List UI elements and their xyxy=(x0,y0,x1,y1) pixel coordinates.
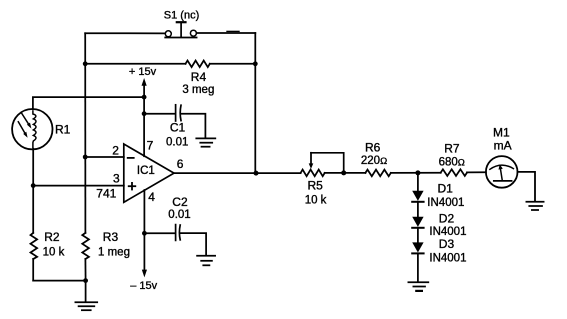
resistor R6 xyxy=(365,170,390,177)
wire R7 to meter xyxy=(467,171,486,173)
wire D2 to D3 xyxy=(417,228,419,243)
svg-text:4: 4 xyxy=(148,190,155,204)
svg-text:– 15v: – 15v xyxy=(130,280,157,292)
minus input sign xyxy=(128,157,134,159)
node junction diodes R7 xyxy=(415,170,420,175)
svg-text:R7: R7 xyxy=(444,142,460,156)
label R6 value xyxy=(361,140,387,167)
switch S1 (nc) pushbutton xyxy=(165,22,196,37)
label R3 value xyxy=(98,230,130,258)
svg-text:IN4001: IN4001 xyxy=(429,253,466,265)
wire top rail right (switch to right vertical) xyxy=(197,32,256,34)
wire R5 to R6 xyxy=(325,172,366,174)
diode D2 xyxy=(412,217,423,228)
svg-text:IN4001: IN4001 xyxy=(427,197,464,209)
svg-text:R1: R1 xyxy=(55,123,71,137)
wire R1 top to +15v node xyxy=(33,97,144,109)
wire D1 to D2 xyxy=(417,202,419,217)
svg-text:M1: M1 xyxy=(493,125,510,139)
resistor R2 xyxy=(31,233,38,259)
svg-text:+ 15v: + 15v xyxy=(129,66,157,78)
svg-text:7: 7 xyxy=(147,139,154,153)
svg-text:R6: R6 xyxy=(365,140,381,154)
svg-text:R4: R4 xyxy=(191,70,207,84)
label R2 value xyxy=(43,230,65,258)
svg-text:220Ω: 220Ω xyxy=(361,155,387,167)
svg-text:C1: C1 xyxy=(170,121,186,135)
wire left vertical (inverting input / R3 branch) xyxy=(84,33,86,233)
wire overlap artifact on top rail xyxy=(227,30,239,32)
label D3 value xyxy=(429,237,466,265)
wire pin 3 input xyxy=(33,185,124,187)
label M1 mA xyxy=(493,125,512,152)
ground for diodes xyxy=(408,282,428,291)
wire R1 bottom vertical (non-inverting branch) xyxy=(32,149,34,233)
svg-text:2: 2 xyxy=(112,144,119,158)
ground for C2 xyxy=(197,256,215,266)
potentiometer R5 xyxy=(301,153,344,176)
ground for C1 xyxy=(196,138,215,146)
node junction C1 tap xyxy=(142,111,147,116)
wire meter to ground xyxy=(518,172,535,201)
capacitor C2 xyxy=(144,225,206,256)
svg-text:6: 6 xyxy=(177,157,184,171)
node junction pin3 R1 R2 xyxy=(31,183,36,188)
resistor R3 xyxy=(82,233,89,259)
wire R3 bottom xyxy=(84,259,86,281)
svg-text:C2: C2 xyxy=(172,195,188,209)
node junction at left of R4 row xyxy=(83,61,88,66)
svg-text:741: 741 xyxy=(96,187,116,201)
wire diode chain top xyxy=(417,173,419,191)
capacitor C1 xyxy=(144,105,205,138)
wire pin7 supply stub xyxy=(143,97,145,156)
svg-text:10 k: 10 k xyxy=(43,246,65,258)
wire pin4 supply stub xyxy=(143,190,145,270)
label R4 value xyxy=(182,70,214,96)
wire right vertical (feedback from output) xyxy=(254,33,256,173)
svg-text:D1: D1 xyxy=(438,181,454,195)
label D1 value xyxy=(427,181,464,209)
diode D3 xyxy=(412,242,423,253)
node junction bottom ground xyxy=(83,278,88,283)
svg-text:IC1: IC1 xyxy=(137,165,155,177)
node junction pin2 feedback xyxy=(83,155,88,160)
wire bottom rail to ground xyxy=(33,280,85,282)
wire output pin 6 xyxy=(174,172,301,174)
svg-text:0.01: 0.01 xyxy=(166,136,188,148)
node junction at right of R4 row xyxy=(253,61,258,66)
label R7 value xyxy=(439,142,465,169)
ground bottom left xyxy=(75,281,97,311)
node junction +15v rail with R1 wire xyxy=(142,95,147,100)
svg-text:3: 3 xyxy=(113,171,120,185)
wire D3 to ground xyxy=(417,253,419,282)
svg-text:0.01: 0.01 xyxy=(168,209,190,221)
svg-text:3 meg: 3 meg xyxy=(182,84,214,96)
label C1 value xyxy=(166,121,188,149)
svg-text:R5: R5 xyxy=(308,179,324,193)
node junction C2 tap xyxy=(142,231,147,236)
wire second rail (R4 row) xyxy=(85,63,255,65)
wire R2 bottom xyxy=(32,259,34,281)
svg-text:680Ω: 680Ω xyxy=(439,156,465,168)
label C2 value xyxy=(168,195,190,221)
ground for meter xyxy=(526,202,543,210)
svg-text:D3: D3 xyxy=(439,237,455,251)
wire pin 2 input xyxy=(85,156,124,158)
meter M1 xyxy=(486,156,518,188)
label D2 value xyxy=(429,211,466,238)
photoresistor R1 xyxy=(12,109,52,149)
svg-text:1 meg: 1 meg xyxy=(98,246,130,258)
diode D1 xyxy=(412,191,423,202)
svg-text:D2: D2 xyxy=(439,211,455,225)
resistor R4 xyxy=(186,61,210,68)
op-amp U1 (IC1 741) xyxy=(124,144,174,202)
-15v supply arrow xyxy=(142,270,147,278)
wire top rail left (feedback to switch S1) xyxy=(85,32,165,34)
resistor R7 xyxy=(441,169,467,176)
+15v supply arrow xyxy=(142,78,147,97)
plus input sign xyxy=(129,183,136,190)
svg-text:mA: mA xyxy=(494,139,512,153)
wire R6 to diode node xyxy=(391,172,441,174)
label R5 value xyxy=(305,179,327,207)
svg-text:S1 (nc): S1 (nc) xyxy=(164,10,199,22)
svg-text:R2: R2 xyxy=(44,230,60,244)
svg-text:R3: R3 xyxy=(103,230,119,244)
node junction output feedback xyxy=(254,171,259,176)
node junction R5 wiper xyxy=(341,170,346,175)
svg-text:10 k: 10 k xyxy=(305,195,327,207)
